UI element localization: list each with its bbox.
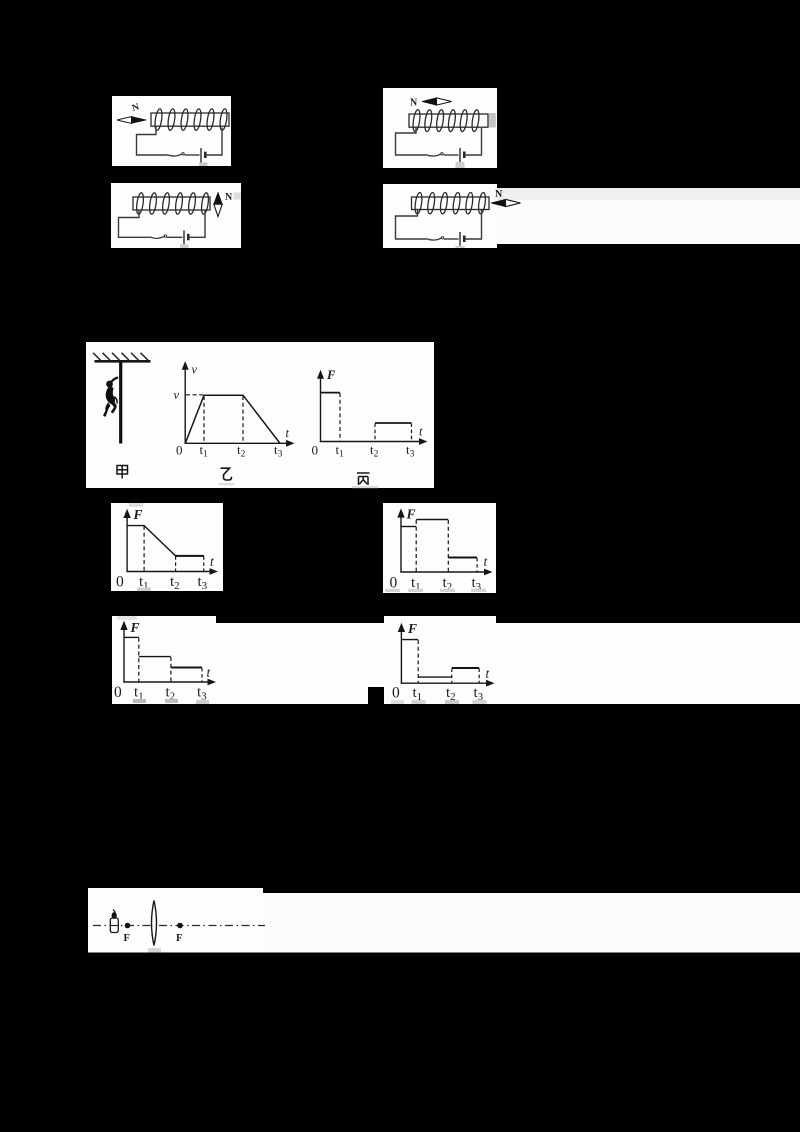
dashed vertical t1 (option B): [415, 520, 417, 572]
wire switch to battery (panel B): [444, 154, 459, 156]
wire switch to battery (panel D2): [444, 238, 459, 240]
switch (panel B): [426, 154, 441, 156]
x-axis (option D): [401, 682, 488, 684]
battery smudge (panel C2): [180, 244, 189, 248]
x-axis (option B): [400, 571, 486, 573]
y-axis (option A): [126, 516, 128, 572]
wire left leg (panel A): [137, 127, 168, 155]
lens panel white background right part: [263, 893, 800, 953]
dashed level v: [186, 394, 204, 396]
dashed vertical t3 (option D): [478, 669, 480, 683]
compass needle (panel A), N pole pointing right: [117, 117, 147, 124]
PANEL D2 : solenoid with compass at right: [383, 184, 800, 248]
F-t graph x-axis (bing): [320, 441, 421, 443]
white band between option C and option D extending to right edge: [216, 623, 800, 704]
wire left leg (panel C2): [119, 210, 150, 237]
dashed vertical t3 (option B): [476, 558, 478, 572]
force level 2 (option D): [418, 676, 452, 678]
force level 3 (option B): [448, 557, 477, 559]
force level 2 (bing): [375, 422, 412, 424]
dashed vertical t2 (v-t): [242, 396, 244, 443]
battery smudge (panel A): [199, 163, 208, 167]
switch (panel C2): [150, 236, 165, 238]
label yi (Chinese): [221, 468, 232, 480]
PANEL C2 : solenoid with vertical compass at right: [111, 183, 241, 248]
compass needle (panel C2), N pole pointing up: [214, 193, 222, 217]
gray smudges below labels (option B): [385, 589, 400, 592]
gray mark right of N (panel C2): [234, 193, 242, 200]
PANEL B : solenoid with compass above: [383, 88, 497, 168]
panel B white background: [383, 88, 497, 168]
force level 1 (option B): [401, 526, 416, 528]
svg-text:F: F: [406, 507, 416, 522]
solenoid winding (panel C2): [135, 192, 209, 214]
convex lens: [152, 901, 157, 946]
option D white background top part: [384, 616, 496, 626]
dashed vertical t1 (option C): [138, 638, 140, 682]
wire battery to right leg (panel A): [207, 128, 222, 156]
svg-text:F: F: [124, 933, 130, 944]
gray smudges below labels (option D): [391, 700, 404, 704]
battery (panel A): [200, 148, 202, 163]
monkey climbing pole: [103, 377, 119, 418]
wire battery to right leg (panel D2): [466, 210, 482, 239]
dashed vertical t1 (option D): [417, 640, 419, 683]
ceiling hatch marks: [93, 353, 148, 360]
svg-text:0: 0: [312, 443, 319, 458]
wire left leg (panel D2): [396, 210, 427, 240]
v-t graph x-axis: [185, 442, 289, 444]
gray underline below bing: [352, 486, 378, 488]
battery smudge (panel D2): [456, 246, 465, 248]
wire switch to battery (panel C2): [167, 236, 183, 238]
svg-text:F: F: [326, 368, 336, 382]
svg-text:0: 0: [176, 443, 183, 458]
optical axis (dash-dot): [93, 925, 265, 927]
middle figure white background: [86, 342, 434, 488]
solenoid winding (panel B): [412, 109, 480, 132]
lens panel white background left part: [88, 888, 263, 953]
svg-text:N: N: [495, 189, 503, 200]
ceiling line: [95, 360, 151, 363]
option C white background: [112, 616, 216, 704]
solenoid core bar (panel A): [151, 113, 229, 126]
white band extending right of panel D2: [497, 188, 800, 200]
panel A white background: [112, 96, 231, 166]
gray mark right of core (panel B): [489, 113, 496, 128]
label jia (Chinese): [117, 466, 128, 479]
OPTION GRAPH B: [383, 503, 496, 593]
wire battery to right leg (panel B): [466, 128, 482, 155]
dashed vertical t2 (option A): [175, 556, 177, 571]
force curve (option A): [127, 526, 204, 556]
svg-text:N: N: [410, 98, 418, 109]
svg-text:v: v: [174, 388, 180, 402]
x-axis (option C): [123, 681, 209, 683]
OPTION ROW 2 BAND + GRAPH C + GRAPH D: [112, 616, 800, 704]
battery smudge (panel B): [456, 162, 465, 168]
option B white background: [383, 503, 496, 593]
solenoid winding (panel A): [154, 108, 228, 130]
svg-text:t: t: [419, 425, 423, 439]
gray underline below yi: [219, 483, 234, 485]
solenoid core bar (panel C2): [133, 197, 210, 210]
battery (panel C2): [183, 230, 185, 244]
dashed vertical t3 (option A): [203, 556, 205, 571]
svg-text:0: 0: [392, 685, 400, 702]
dashed vertical t1 (option A): [143, 526, 145, 571]
MIDDLE FIGURE : monkey on pole + v-t graph + F-t graph: [86, 342, 434, 488]
force level 1 (option D): [401, 639, 418, 641]
dashed vertical t3 (bing): [411, 424, 413, 442]
switch (panel A): [167, 154, 182, 156]
x-axis (option A): [126, 571, 211, 573]
dashed vertical t1 (bing): [339, 393, 341, 441]
svg-text:0: 0: [116, 574, 124, 591]
svg-text:F: F: [176, 933, 182, 944]
dashed vertical t2 (bing): [374, 424, 376, 442]
force level 1 (bing): [321, 392, 341, 394]
dashed vertical t2 (option B): [447, 520, 449, 572]
gray smudge below t1 (option A): [137, 588, 151, 592]
svg-text:F: F: [130, 620, 140, 635]
gray smudge top edge (option C): [117, 616, 137, 620]
force level 2 (option C): [139, 656, 171, 658]
y-axis (option D): [400, 630, 402, 683]
solenoid core bar (panel D2): [412, 197, 490, 210]
svg-text:N: N: [225, 192, 233, 203]
force level 2 (option B): [416, 519, 448, 521]
svg-text:0: 0: [114, 684, 122, 701]
label bing (Chinese): [357, 473, 370, 485]
dashed vertical t2 (option D): [451, 669, 453, 683]
gray smudge top edge (option A): [129, 503, 143, 507]
svg-text:F: F: [133, 507, 143, 522]
black notch left of option D: [368, 687, 384, 704]
candle object: [110, 910, 118, 933]
solenoid core bar (panel B): [409, 114, 488, 127]
v-t graph y-axis: [184, 368, 186, 443]
solenoid winding (panel D2): [414, 192, 487, 214]
y-axis (option B): [400, 516, 402, 573]
compass needle (panel D2), N pole pointing left: [491, 199, 521, 206]
wire left leg (panel B): [396, 128, 427, 156]
panel C2 white background: [111, 183, 241, 248]
PANEL A : solenoid with compass at left: [112, 96, 231, 166]
force level 3 (option D): [452, 667, 479, 669]
left focal point F: [125, 923, 131, 929]
force level 3 (option C): [171, 667, 202, 669]
y-axis (option C): [123, 628, 125, 682]
gray smudges below labels (option C): [133, 699, 146, 703]
battery (panel D2): [459, 232, 461, 246]
LENS FIGURE background: [88, 888, 800, 953]
pole: [119, 362, 122, 444]
dashed vertical t2 (option C): [170, 657, 172, 682]
F-t graph y-axis (bing): [320, 377, 322, 442]
right focal point F: [177, 923, 183, 929]
battery (panel B): [459, 148, 461, 162]
svg-text:t: t: [286, 426, 290, 440]
option A white background: [111, 503, 223, 591]
compass needle (panel B), N pole pointing left: [422, 98, 452, 105]
svg-text:v: v: [192, 363, 198, 377]
wire switch to battery (panel A): [185, 154, 200, 156]
force level 1 (option C): [124, 636, 139, 638]
svg-text:F: F: [407, 621, 417, 636]
dashed vertical t1 (v-t): [203, 396, 205, 443]
OPTION GRAPH A: [111, 503, 223, 592]
wire battery to right leg (panel C2): [190, 211, 205, 238]
panel D2 white background: [383, 184, 497, 248]
lens bottom smudge: [148, 948, 161, 953]
velocity curve: [185, 395, 280, 443]
dashed vertical t3 (option C): [201, 668, 203, 682]
switch (panel D2): [427, 238, 442, 240]
